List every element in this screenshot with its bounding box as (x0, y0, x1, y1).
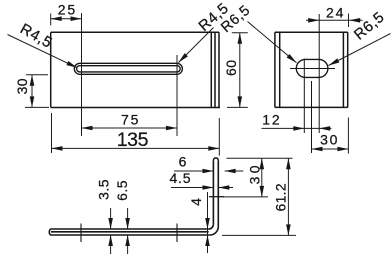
svg-text:75: 75 (121, 112, 140, 128)
svg-text:24: 24 (326, 5, 345, 21)
svg-text:4: 4 (188, 198, 204, 206)
svg-text:3.5: 3.5 (96, 179, 112, 200)
svg-text:6: 6 (179, 154, 189, 170)
svg-text:12: 12 (262, 112, 281, 128)
svg-text:135: 135 (117, 129, 149, 151)
svg-text:25: 25 (58, 2, 77, 18)
svg-text:6.5: 6.5 (114, 180, 130, 201)
svg-text:4.5: 4.5 (169, 170, 191, 186)
svg-text:30: 30 (247, 162, 263, 184)
svg-text:60: 60 (223, 60, 239, 76)
svg-text:30: 30 (14, 78, 30, 94)
svg-text:30: 30 (320, 131, 339, 147)
svg-text:61.2: 61.2 (272, 183, 288, 211)
